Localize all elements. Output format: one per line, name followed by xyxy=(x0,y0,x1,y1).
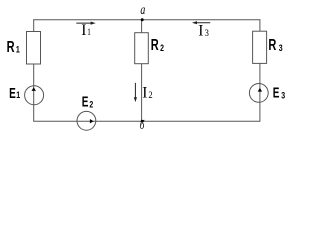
label R3 xyxy=(268,36,283,53)
label R2 xyxy=(151,36,165,53)
svg-text:R: R xyxy=(151,36,159,53)
svg-text:2: 2 xyxy=(148,89,153,100)
svg-text:1: 1 xyxy=(16,90,20,100)
svg-text:1: 1 xyxy=(16,44,20,54)
svg-text:3: 3 xyxy=(205,27,210,38)
svg-text:a: a xyxy=(140,1,145,17)
svg-text:3: 3 xyxy=(281,90,285,100)
source E3 arrowhead xyxy=(258,88,262,92)
svg-text:R: R xyxy=(268,36,276,53)
label R1 xyxy=(7,38,21,55)
wire middle branch lower xyxy=(141,64,143,121)
wire left branch lower xyxy=(33,64,35,121)
node b junction dot xyxy=(141,120,144,123)
source E1 xyxy=(25,86,44,105)
svg-text:2: 2 xyxy=(89,99,93,109)
source E3 xyxy=(249,84,268,103)
svg-text:I: I xyxy=(198,23,203,40)
wire bottom bus xyxy=(33,120,260,122)
source E1 arrowhead xyxy=(32,87,36,91)
svg-text:3: 3 xyxy=(279,43,283,53)
label I1 xyxy=(81,22,91,39)
svg-text:E: E xyxy=(9,85,16,101)
svg-text:E: E xyxy=(273,85,280,101)
label E2 xyxy=(82,94,94,110)
wire right branch lower xyxy=(259,63,261,121)
current arrow I1 xyxy=(76,22,95,25)
wire top bus xyxy=(33,19,260,21)
svg-text:2: 2 xyxy=(160,43,164,53)
wire middle branch upper xyxy=(141,20,143,33)
current arrow I3 xyxy=(192,21,210,24)
svg-text:I: I xyxy=(142,85,147,102)
resistor R1 xyxy=(27,32,41,65)
label E1 xyxy=(9,85,20,101)
label E3 xyxy=(273,85,286,101)
svg-text:E: E xyxy=(82,94,89,110)
source E2 arrowhead xyxy=(90,119,94,123)
svg-text:R: R xyxy=(7,38,15,55)
svg-text:б: б xyxy=(140,119,145,133)
wire left branch upper xyxy=(33,19,35,31)
label I3 xyxy=(198,23,209,40)
label I2 xyxy=(142,85,153,102)
svg-text:I: I xyxy=(81,22,86,39)
wire right branch upper xyxy=(259,19,261,31)
source E2 xyxy=(77,111,96,130)
resistor R3 xyxy=(253,31,267,63)
current arrow I2 xyxy=(134,83,137,102)
resistor R2 xyxy=(135,33,149,64)
node a junction dot xyxy=(141,18,144,21)
svg-text:1: 1 xyxy=(87,26,91,37)
